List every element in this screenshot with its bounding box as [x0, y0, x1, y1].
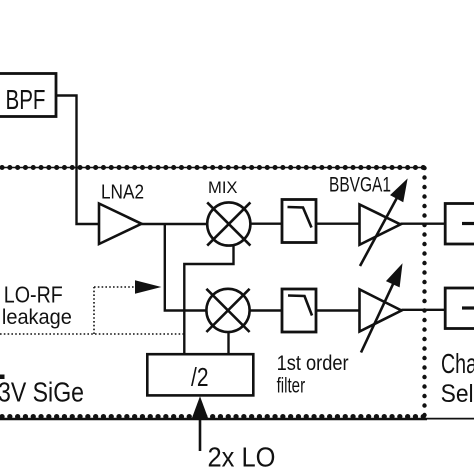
svg-text:/2: /2 [191, 364, 209, 392]
BPF box [0, 74, 56, 117]
wire BBVGA1 to output box upper [401, 222, 446, 224]
svg-text:3V SiGe: 3V SiGe [0, 377, 84, 408]
mixer lower [206, 289, 249, 332]
chip boundary right dotted line [422, 168, 426, 416]
2x LO label [208, 442, 276, 473]
wire LNA2 to mixer MIX upper [142, 223, 208, 225]
wire lower mixer to filter2 [250, 309, 282, 311]
1st order filter label [277, 352, 349, 397]
2x LO input arrow [192, 396, 209, 451]
svg-text:BBVGA1: BBVGA1 [329, 174, 391, 197]
wire LO to upper mixer [184, 246, 233, 355]
svg-text:Sel: Sel [441, 380, 474, 408]
svg-text:filter: filter [277, 374, 306, 397]
filter 1st order lower [282, 289, 316, 332]
wire upper mixer to filter1 [250, 222, 282, 224]
svg-text:MIX: MIX [208, 179, 238, 197]
svg-text:BPF: BPF [6, 84, 46, 115]
LO-RF leakage dotted path [0, 280, 184, 334]
svg-text:LNA2: LNA2 [101, 180, 144, 203]
variable gain amplifier lower [360, 266, 402, 353]
filter 1st order upper [282, 200, 316, 243]
output box lower [445, 288, 474, 329]
svg-text:1st order: 1st order [277, 352, 349, 375]
wire filter2 to VGA lower [316, 309, 360, 311]
wire BPF to LNA2 [56, 96, 100, 225]
output box upper [445, 204, 474, 245]
amplifier LNA2 [99, 204, 142, 245]
variable gain amplifier BBVGA1 upper [360, 181, 407, 267]
wire VGA lower to output box lower [402, 309, 446, 311]
leakage label [2, 306, 72, 329]
svg-text:2x LO: 2x LO [208, 442, 276, 473]
MIX label [208, 179, 238, 197]
mixer MIX upper [207, 202, 250, 245]
LNA2 label [101, 180, 144, 203]
divider /2 box [147, 354, 253, 395]
BBVGA1 label [329, 174, 391, 197]
wire LO to lower mixer [227, 332, 229, 354]
svg-text:LO-RF: LO-RF [4, 282, 63, 308]
svg-text:Cha: Cha [441, 348, 474, 379]
wire RF split down to lower mixer [165, 224, 207, 311]
svg-text:leakage: leakage [2, 306, 72, 329]
chip boundary bottom scalloped line [0, 417, 474, 419]
chip boundary top dotted line [0, 167, 425, 169]
Channel Select label [441, 348, 474, 408]
LO-RF label [4, 282, 63, 308]
3V SiGe label [0, 375, 84, 408]
wire filter1 to BBVGA1 [316, 222, 360, 224]
